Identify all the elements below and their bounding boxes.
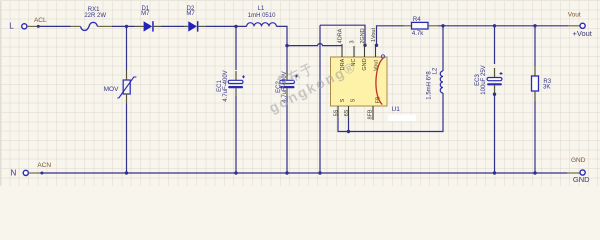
- pin 5 stub: [337, 106, 339, 118]
- svg-text:ACL: ACL: [34, 17, 47, 24]
- wire bottom rail: [40, 172, 567, 174]
- svg-text:EC1: EC1: [217, 80, 223, 92]
- resistor RX1 right lead: [98, 25, 113, 27]
- capacitor EC2 lower lead: [286, 88, 288, 96]
- svg-text:L: L: [9, 22, 14, 31]
- diode D1 anode lead: [135, 25, 144, 27]
- node junction R3 top: [533, 24, 536, 27]
- white patch: [388, 115, 416, 122]
- svg-text:GND: GND: [571, 157, 586, 164]
- pin 8 FB stub: [372, 106, 374, 120]
- node junction L2 top: [441, 24, 444, 27]
- svg-text:1.5mH 6*8: 1.5mH 6*8: [427, 71, 433, 100]
- resistor R3 column wire upper: [534, 26, 536, 66]
- wire D1 to D2: [161, 25, 184, 27]
- node junction R3 bottom: [533, 171, 536, 174]
- char yu: [299, 63, 314, 78]
- port N stub: [29, 172, 41, 174]
- capacitor EC1 lower lead: [235, 88, 237, 96]
- wire R3 to bottom rail: [534, 101, 536, 173]
- node junction EC1 column: [234, 25, 237, 28]
- svg-text:2GND: 2GND: [360, 28, 366, 43]
- port Vout terminal: [580, 23, 585, 28]
- svg-text:GND: GND: [573, 175, 590, 184]
- diode D2: [188, 21, 198, 31]
- capacitor EC3 column wire upper: [494, 26, 496, 64]
- diode D2 cathode lead: [198, 25, 206, 27]
- svg-text:+Vout: +Vout: [572, 29, 592, 38]
- wire EC2 to bottom rail: [286, 96, 288, 173]
- inductor L2: [440, 71, 443, 93]
- wire GND return column x320: [319, 25, 321, 173]
- pin 2 stub: [364, 44, 366, 57]
- wire L1 to corner: [276, 26, 287, 45]
- varistor MOV lower lead: [126, 94, 128, 104]
- varistor MOV upper lead: [126, 70, 128, 80]
- capacitor EC2 upper lead: [286, 72, 288, 80]
- wire L to RX1 (olive stub): [27, 25, 40, 27]
- svg-text:1Vout: 1Vout: [371, 27, 377, 42]
- port L: [9, 22, 27, 31]
- wire pin6 to switch node: [348, 118, 350, 132]
- wire EC3 to bottom rail: [494, 93, 496, 173]
- page edge shading: [0, 0, 600, 186]
- diode D2 anode lead: [184, 25, 188, 27]
- node junction EC1 bottom: [234, 171, 237, 174]
- svg-text:N: N: [11, 168, 17, 177]
- svg-text:4.7uF-400V: 4.7uF-400V: [223, 70, 229, 101]
- resistor R3 upper lead: [534, 66, 536, 76]
- resistor R3 lower lead: [534, 91, 536, 101]
- svg-text:3K: 3K: [543, 85, 550, 91]
- node junction EC3 top: [493, 24, 496, 27]
- capacitor EC3 lower lead: [494, 85, 496, 93]
- svg-text:ACN: ACN: [37, 162, 51, 169]
- wire bus to DRA pin with hop: [287, 44, 342, 46]
- resistor RX1: [81, 22, 98, 30]
- svg-text:S: S: [351, 98, 357, 102]
- capacitor EC2 column wire upper: [286, 46, 288, 76]
- inductor L1: [247, 23, 277, 27]
- svg-text:EC3: EC3: [475, 74, 481, 86]
- resistor R4: [412, 22, 429, 29]
- node dot EC3: [493, 93, 496, 96]
- port GND terminal: [580, 170, 585, 175]
- op-amp U1 body: [331, 57, 388, 106]
- svg-text:100uF 25V: 100uF 25V: [481, 65, 487, 94]
- wire output rail: [438, 25, 568, 27]
- inductor L2 lower wire to switch node: [338, 93, 443, 132]
- varistor MOV column wire upper: [126, 26, 128, 70]
- annotation blue ring: [381, 55, 384, 58]
- svg-text:Vout: Vout: [568, 12, 581, 19]
- capacitor EC1 upper lead: [235, 71, 237, 80]
- pin 3 stub: [353, 46, 355, 57]
- char bu: [287, 68, 301, 83]
- svg-text:MOV: MOV: [104, 86, 119, 93]
- wire GND detour top: [320, 25, 365, 45]
- svg-text:GND: GND: [362, 58, 368, 70]
- varistor MOV: [117, 77, 136, 98]
- wire to RX1: [40, 25, 71, 27]
- svg-text:6S: 6S: [344, 109, 350, 116]
- svg-text:S: S: [340, 98, 346, 102]
- svg-text:R4: R4: [413, 17, 421, 23]
- node junction MOV bottom: [125, 171, 128, 174]
- svg-text:22R 2W: 22R 2W: [84, 13, 106, 19]
- wire pin1 to R4 rail: [377, 26, 404, 46]
- wire EC1 to bottom rail: [235, 96, 237, 173]
- capacitor EC3: [487, 72, 502, 85]
- svg-text:U1: U1: [392, 106, 401, 113]
- watermark gongkong: [259, 43, 359, 116]
- diode D1: [144, 21, 154, 31]
- node pin2 wire end: [363, 44, 366, 47]
- capacitor EC1: [228, 75, 245, 88]
- node junction MOV column: [125, 25, 128, 28]
- svg-text:8FB: 8FB: [368, 109, 374, 119]
- wire RX1 to D1: [112, 25, 135, 27]
- node junction pin6: [347, 130, 350, 133]
- svg-text:4.7k: 4.7k: [412, 31, 424, 37]
- port GND stub: [567, 172, 580, 174]
- node junction EC2 bottom: [285, 171, 288, 174]
- node junction GND column bottom: [318, 171, 321, 174]
- resistor R4 right lead: [428, 25, 438, 27]
- resistor R3: [532, 76, 539, 91]
- svg-text:M7: M7: [141, 11, 150, 17]
- diode D1 cathode lead: [154, 25, 161, 27]
- node ACL dot: [37, 25, 40, 28]
- svg-text:1mH 0510: 1mH 0510: [248, 13, 276, 19]
- port Vout stub: [568, 25, 580, 27]
- node pin1 wire end: [375, 44, 378, 47]
- pin 4 stub: [341, 44, 343, 57]
- capacitor EC1 column wire upper: [235, 26, 237, 70]
- resistor RX1 left lead: [71, 25, 81, 27]
- node junction EC3 bottom: [493, 171, 496, 174]
- pin 6 stub: [348, 106, 350, 118]
- svg-text:3: 3: [350, 40, 356, 43]
- node ACN dot: [41, 172, 44, 175]
- inductor L2 upper wire: [442, 26, 444, 71]
- pin 1 stub: [375, 44, 377, 57]
- svg-text:4DRA: 4DRA: [338, 28, 344, 43]
- svg-text:EC2: EC2: [276, 81, 282, 93]
- port N: [11, 168, 29, 177]
- svg-text:M7: M7: [186, 11, 195, 17]
- wire D2 to L1: [206, 25, 247, 27]
- resistor R4 left lead: [404, 25, 412, 27]
- node T junction EC2 top: [285, 44, 288, 47]
- capacitor EC2: [280, 75, 298, 89]
- svg-text:L1: L1: [258, 6, 265, 12]
- annotation red arc: [376, 59, 383, 105]
- svg-text:5S: 5S: [333, 109, 339, 116]
- wire MOV to bottom rail: [126, 104, 128, 173]
- capacitor EC3 upper lead: [494, 68, 496, 78]
- svg-text:L2: L2: [433, 67, 439, 74]
- char fa: [276, 74, 290, 89]
